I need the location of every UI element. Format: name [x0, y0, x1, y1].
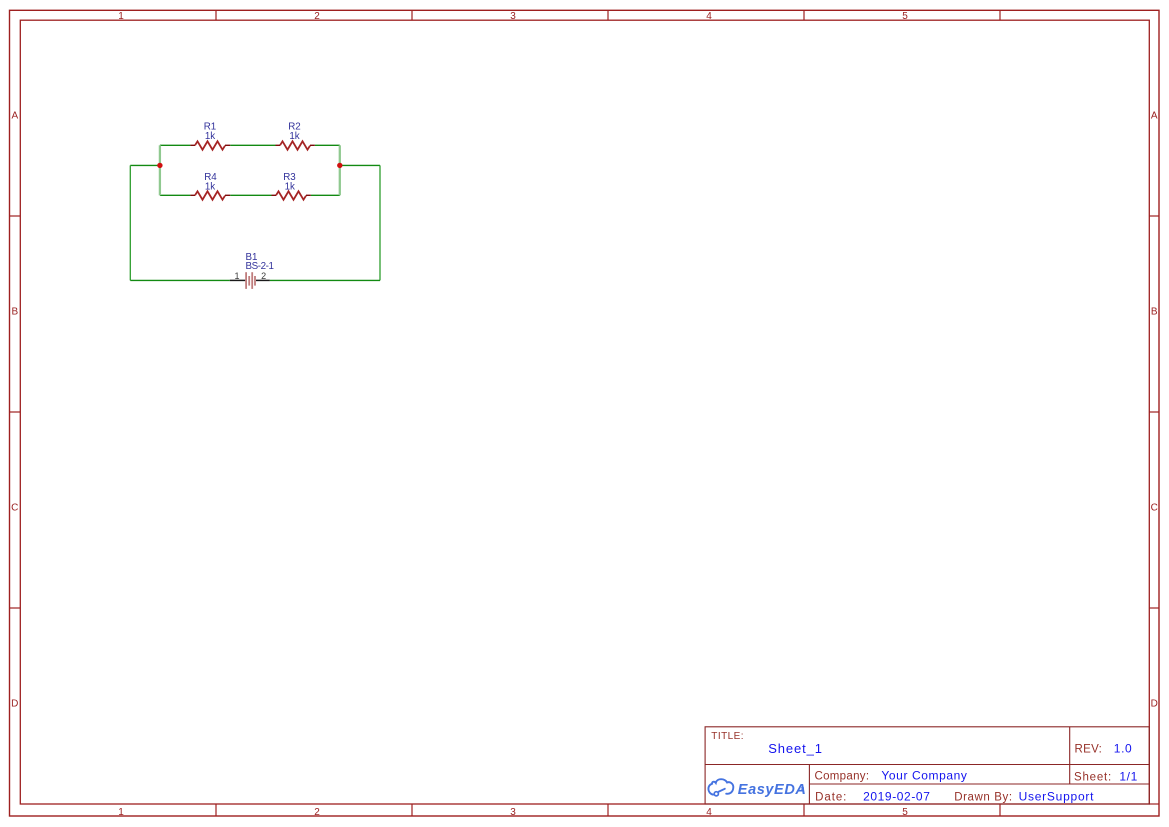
resistor R4 [190, 191, 230, 199]
junction left node [157, 163, 162, 168]
svg-text:Your Company: Your Company [881, 768, 967, 782]
svg-text:B: B [1151, 307, 1158, 318]
svg-text:1k: 1k [285, 181, 295, 192]
wire left inner vertical [159, 145, 161, 195]
svg-text:4: 4 [706, 807, 712, 818]
svg-text:Sheet:: Sheet: [1074, 771, 1112, 783]
wire second row middle segment [230, 194, 271, 196]
wire bottom left segment [130, 279, 230, 281]
svg-text:3: 3 [510, 11, 516, 22]
svg-text:D: D [11, 698, 18, 709]
EasyEDA logo [708, 779, 806, 798]
wire second row left segment [160, 194, 191, 196]
svg-text:1/1: 1/1 [1119, 769, 1137, 783]
svg-text:1.0: 1.0 [1114, 742, 1132, 756]
svg-text:B: B [11, 307, 18, 318]
svg-text:REV:: REV: [1075, 744, 1103, 756]
svg-text:Company:: Company: [815, 770, 870, 782]
svg-text:BS-2-1: BS-2-1 [246, 261, 274, 272]
wire right node stub [340, 164, 380, 166]
wire right inner vertical [339, 145, 341, 195]
svg-text:Date:: Date: [815, 792, 847, 804]
svg-text:2: 2 [261, 271, 266, 281]
resistor R2 [276, 141, 315, 149]
junction right node [337, 163, 342, 168]
svg-text:2: 2 [314, 11, 320, 22]
wire top row right segment [315, 144, 340, 146]
svg-text:2019-02-07: 2019-02-07 [863, 790, 930, 804]
wire right outer vertical [379, 165, 381, 280]
wire bottom right segment [270, 279, 380, 281]
resistor R1 [190, 141, 230, 149]
svg-text:Sheet_1: Sheet_1 [768, 741, 823, 756]
svg-text:5: 5 [902, 11, 908, 22]
wire left outer vertical [129, 165, 131, 280]
battery B1 [230, 272, 270, 289]
svg-text:2: 2 [314, 807, 320, 818]
svg-text:A: A [11, 111, 18, 122]
svg-text:1: 1 [118, 11, 124, 22]
svg-text:1k: 1k [205, 131, 215, 142]
svg-text:Drawn By:: Drawn By: [954, 792, 1012, 804]
svg-text:1: 1 [234, 271, 239, 281]
svg-text:EasyEDA: EasyEDA [738, 782, 807, 798]
svg-text:5: 5 [902, 807, 908, 818]
resistor R3 [272, 191, 311, 199]
svg-text:1k: 1k [205, 181, 215, 192]
wire second row right segment [311, 194, 340, 196]
title block (decorative) [705, 727, 1149, 804]
svg-text:UserSupport: UserSupport [1019, 790, 1095, 804]
svg-text:3: 3 [510, 807, 516, 818]
svg-text:A: A [1151, 111, 1158, 122]
svg-text:D: D [1151, 698, 1158, 709]
svg-text:1: 1 [118, 807, 124, 818]
svg-text:C: C [11, 503, 18, 514]
wire top row middle segment [230, 144, 275, 146]
svg-text:4: 4 [706, 11, 712, 22]
wire left node stub [130, 164, 160, 166]
wire top row left segment [160, 144, 191, 146]
svg-text:1k: 1k [289, 131, 299, 142]
svg-text:C: C [1151, 503, 1158, 514]
svg-text:TITLE:: TITLE: [711, 731, 744, 742]
